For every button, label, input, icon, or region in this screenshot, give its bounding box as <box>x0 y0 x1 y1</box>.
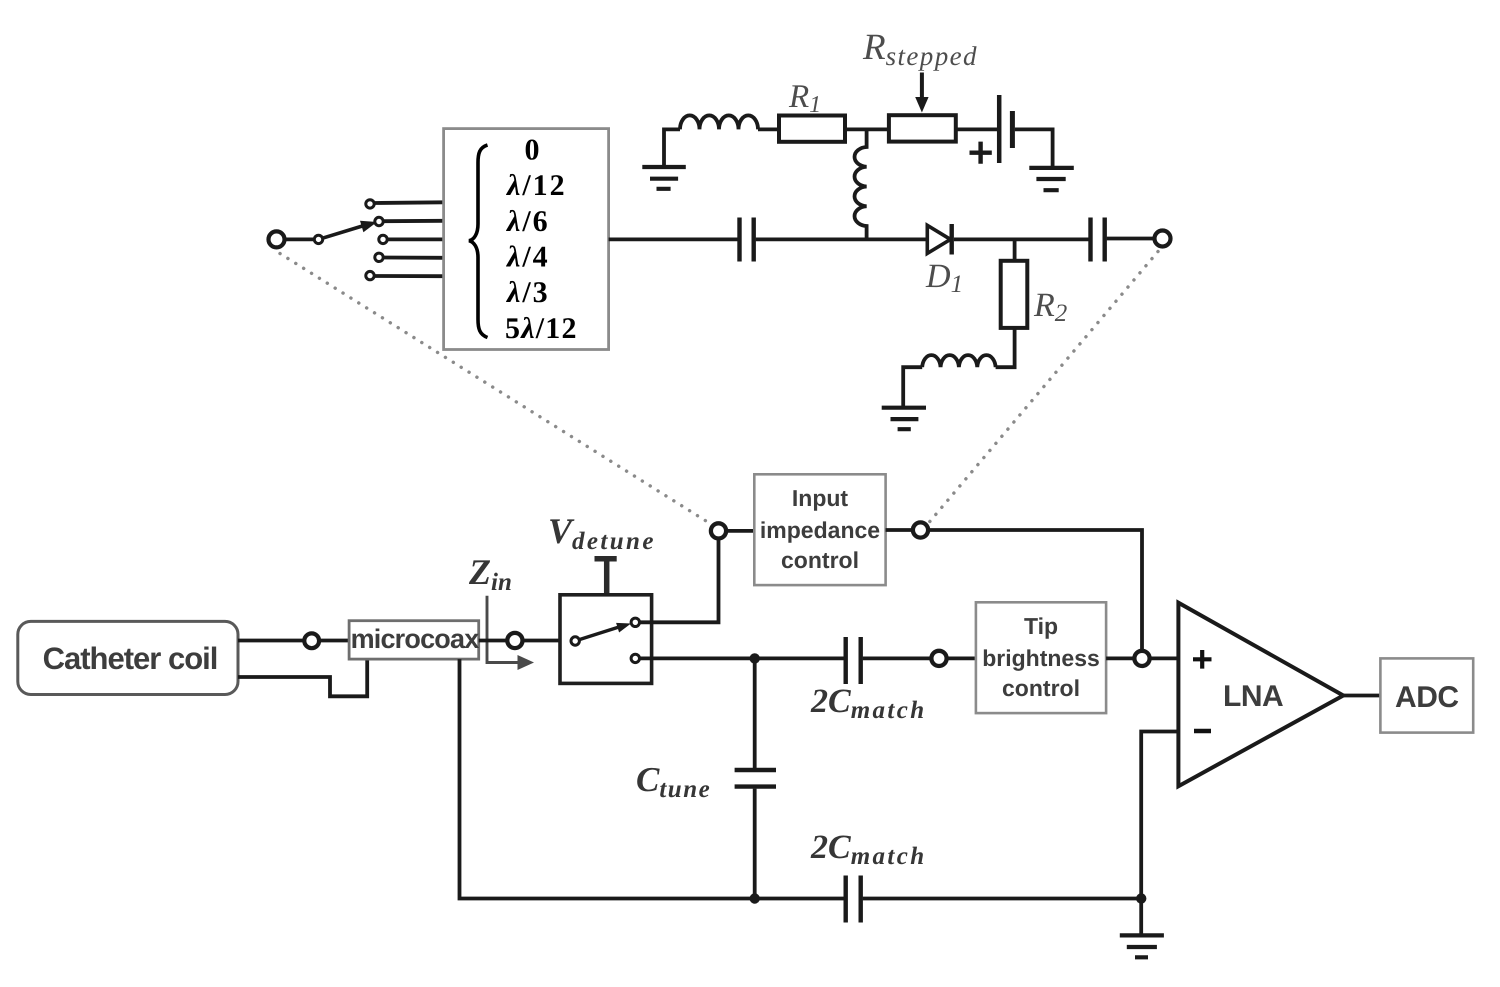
wire contact4 to box <box>384 256 444 260</box>
wire contact5 to box <box>375 274 444 278</box>
battery V1 short plate <box>1010 111 1015 148</box>
wire D1 to capacitor C2 <box>954 237 1089 241</box>
svg-text:λ/4: λ/4 <box>505 241 550 274</box>
wire impedance box to node D <box>886 528 913 532</box>
diode D1 triangle <box>927 225 950 253</box>
wire junction I to ground G4 <box>1139 899 1143 936</box>
wire node C to impedance box <box>726 529 754 533</box>
capacitor Ctune plates <box>735 770 776 787</box>
junction H dot <box>750 893 760 903</box>
wire node F to tip box <box>947 657 976 661</box>
wire junction to R2 <box>1013 239 1017 260</box>
ground G1 stub <box>664 129 680 167</box>
brace <box>469 145 488 338</box>
wire contact1 to box <box>375 200 444 204</box>
svg-text:LNA: LNA <box>1223 680 1283 713</box>
resistor R2 <box>1001 261 1028 328</box>
capacitor 2Cmatch bottom plates <box>846 876 861 923</box>
LNA plus sign <box>1193 650 1212 669</box>
battery V1 long plate <box>997 95 1002 163</box>
dotted magnifier line right <box>929 252 1158 523</box>
wire Ctune to junction H <box>753 789 757 899</box>
detune switch pivot <box>571 637 579 645</box>
wire L1 to R1 <box>758 127 779 131</box>
capacitor C2 plate left <box>1088 218 1092 262</box>
capacitor C1 plate left <box>737 218 741 262</box>
wire coil bottom return <box>238 659 367 696</box>
wire capacitor to node F <box>863 657 932 661</box>
svg-text:brightness: brightness <box>982 645 1100 671</box>
svg-text:5λ/12: 5λ/12 <box>505 312 578 345</box>
wire box to capacitor C1 <box>609 237 738 241</box>
svg-text:λ/3: λ/3 <box>505 276 550 309</box>
wire C2 to output terminal <box>1107 237 1155 241</box>
svg-text:ADC: ADC <box>1395 681 1459 714</box>
node A (coil output) <box>304 633 319 648</box>
svg-text:control: control <box>781 547 859 573</box>
junction I dot <box>1136 893 1146 903</box>
diode D1 cathode bar <box>950 224 954 255</box>
capacitor C1 plate right <box>752 218 756 262</box>
wire junction I to LNA minus <box>1141 732 1178 899</box>
capacitor C2 plate right <box>1102 218 1106 262</box>
svg-text:λ/12: λ/12 <box>505 169 567 202</box>
switch throw contact 4 <box>375 253 383 261</box>
inductor L3 <box>922 355 995 367</box>
junction E dot <box>750 653 760 663</box>
wire contact3 to box <box>388 237 444 241</box>
switch SW1 pivot <box>314 235 322 243</box>
detune switch contact down <box>631 654 639 662</box>
wire switch up-contact to node C <box>640 538 719 622</box>
dotted magnifier line left <box>280 254 710 524</box>
Input impedance control box <box>754 474 885 585</box>
wire junction E to capacitor 2Cmatch top <box>755 657 844 661</box>
output terminal node (right port) <box>1155 231 1171 247</box>
wire R2 to inductor L3 <box>996 328 1015 367</box>
inductor L2 (vertical shunt) <box>855 129 867 239</box>
delay-line selection box <box>444 129 609 350</box>
switch throw contact 3 <box>379 235 387 243</box>
Tip brightness control box <box>976 602 1106 713</box>
ground G4 <box>1120 935 1164 957</box>
wire node G to LNA plus <box>1150 657 1179 661</box>
resistor R1 <box>779 116 845 142</box>
svg-text:Catheter coil: Catheter coil <box>43 641 218 676</box>
wire bottom rail right <box>863 897 1141 901</box>
svg-text:control: control <box>1002 675 1080 701</box>
svg-text:Tip: Tip <box>1024 613 1058 639</box>
switch throw contact 2 <box>375 217 383 225</box>
node C (impedance ctrl left port) <box>711 523 726 538</box>
Rstepped wiper arrow <box>920 73 924 100</box>
input terminal node (left port) <box>269 231 285 247</box>
op-amp LNA <box>1178 603 1343 787</box>
wire C1 to diode D1 <box>756 237 928 241</box>
detune switch contact up <box>631 618 639 626</box>
inductor L1 <box>680 115 758 129</box>
microcoax box <box>349 621 479 659</box>
svg-text:0: 0 <box>525 134 540 167</box>
Catheter coil box <box>18 621 238 694</box>
Zin look-in arrow <box>487 596 521 663</box>
potentiometer Rstepped <box>889 115 956 141</box>
svg-text:microcoax: microcoax <box>351 624 480 654</box>
detune switch arm <box>579 627 619 640</box>
node B (Zin node) <box>507 633 522 648</box>
ADC box <box>1380 658 1473 732</box>
switch throw contact 1 <box>366 200 374 208</box>
svg-text:Input: Input <box>792 485 849 511</box>
wire coil top to node <box>238 639 305 643</box>
wire battery to ground G2 <box>1015 129 1053 168</box>
ground G2 <box>1029 168 1074 190</box>
switch throw contact 5 <box>366 271 374 279</box>
Vdetune control stub <box>595 559 617 595</box>
wire <box>285 237 316 241</box>
battery plus sign <box>970 142 992 164</box>
svg-text:impedance: impedance <box>760 517 880 543</box>
wire junction E down to Ctune <box>753 658 757 768</box>
wire LNA to ADC <box>1343 694 1380 698</box>
switch SW1 arm <box>323 226 365 239</box>
wire microcoax to node B <box>479 639 508 643</box>
wire L3 to ground G3 <box>903 367 922 408</box>
wire contact2 to box <box>384 219 444 223</box>
node G (LNA plus input node) <box>1134 651 1149 666</box>
LNA minus sign <box>1194 729 1211 734</box>
ground G3 <box>882 408 926 430</box>
capacitor 2Cmatch top plates <box>846 637 861 684</box>
ground G1 <box>642 167 686 189</box>
wire Rstepped to battery <box>956 127 997 131</box>
wire R1 to Rstepped <box>845 127 889 131</box>
node F (tip ctrl left port) <box>931 651 946 666</box>
wire microcoax down to bottom rail <box>460 659 844 898</box>
detune switch box <box>560 595 652 684</box>
wire switch down-contact to junction E <box>640 657 755 661</box>
wire tip box to node G <box>1106 657 1134 661</box>
wire node B to switch box <box>523 639 561 643</box>
wire node D to LNA plus node <box>928 530 1142 651</box>
svg-text:λ/6: λ/6 <box>505 205 550 238</box>
wire node to microcoax <box>319 639 349 643</box>
node D (impedance ctrl right port) <box>913 522 928 537</box>
